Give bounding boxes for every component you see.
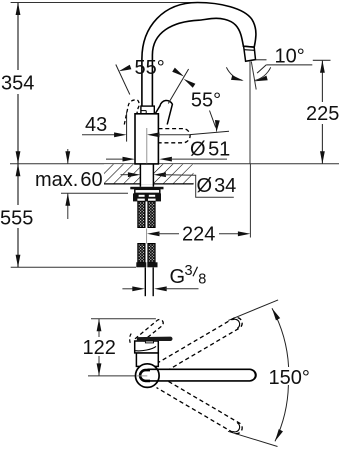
side top reference line — [91, 318, 156, 320]
55deg line A (open lever axis) — [116, 65, 130, 95]
dimension 225 — [321, 60, 323, 163]
lever base block — [141, 106, 154, 114]
centerline in stud gap — [146, 229, 148, 244]
dashed spout position up — [157, 318, 243, 374]
55deg arrow on line A — [118, 65, 131, 74]
dimension diam 51 — [106, 158, 124, 160]
lever axis extension line — [190, 131, 229, 134]
aerator end line down — [232, 423, 239, 432]
svg-text:Ø51: Ø51 — [190, 139, 230, 161]
dimension 224 — [147, 231, 160, 236]
svg-text:55°: 55° — [191, 90, 221, 112]
arrow up at top line — [16, 3, 21, 16]
shank sides through counter — [139, 164, 141, 187]
spout gooseneck outer — [142, 3, 256, 108]
svg-text:8: 8 — [198, 272, 206, 288]
hose end nuts — [136, 262, 146, 267]
svg-text:43: 43 — [85, 114, 107, 136]
top reference line — [11, 2, 197, 4]
counter top reference line — [10, 163, 339, 165]
supply tube G3/8 — [144, 267, 146, 296]
mounting washer — [130, 187, 163, 190]
arrow on line B from right — [182, 77, 195, 88]
svg-text:150°: 150° — [269, 367, 310, 389]
dimension 43 — [82, 134, 117, 136]
threaded studs lower — [138, 244, 155, 263]
raised lever rear dash — [130, 333, 132, 343]
spout inner end cap (thick) — [140, 370, 150, 381]
right solid lever capsule — [154, 100, 173, 124]
10deg swing arc — [226, 67, 242, 80]
svg-text:555: 555 — [0, 207, 33, 229]
225 top reference line — [313, 59, 331, 61]
svg-text:3: 3 — [185, 263, 193, 279]
svg-text:354: 354 — [1, 73, 34, 95]
svg-text:224: 224 — [182, 223, 215, 245]
svg-text:max.60: max.60 — [35, 169, 103, 191]
arrow down at hose line (555 bottom) — [16, 255, 21, 268]
dimension 354/555 vertical line — [17, 3, 19, 268]
svg-text:55°: 55° — [135, 57, 165, 79]
dashed raised lever (side view) — [135, 319, 163, 343]
dimension diam 34 — [121, 174, 130, 176]
dimension G3/8 — [122, 288, 134, 290]
horizontal dashed lever capsule — [159, 129, 191, 143]
max.60 dimension — [67, 149, 69, 164]
side solid spout capsule — [147, 369, 256, 381]
body centerline — [146, 128, 148, 164]
outlet tilted stream line — [251, 62, 256, 90]
55deg line B (closed lever axis) — [168, 69, 188, 104]
hose-end reference line (555 bottom) — [11, 266, 136, 268]
svg-text:Ø34: Ø34 — [197, 175, 237, 197]
dashed spout position down — [157, 378, 243, 434]
arrow on line B from left — [172, 68, 185, 79]
aerator end line up — [232, 319, 239, 328]
notch above body — [144, 339, 149, 341]
arrow up below counter — [16, 164, 21, 177]
faucet body — [135, 114, 158, 164]
svg-text:122: 122 — [83, 337, 116, 359]
svg-text:225: 225 — [306, 103, 339, 125]
outlet line below counter — [249, 164, 251, 238]
shank white cutout through counter — [141, 164, 153, 185]
dimension 122 — [98, 319, 100, 337]
inner swoosh — [135, 346, 156, 350]
leader to horizontal lever — [210, 111, 216, 128]
solid lever blade (side view) — [137, 337, 173, 341]
aerator end line right — [251, 370, 256, 380]
side body lower box — [136, 353, 158, 367]
spout capsule edges inside circle — [148, 369, 159, 381]
svg-text:10°: 10° — [275, 45, 305, 67]
spout outlet aerator — [244, 46, 256, 61]
counter hatch band — [104, 164, 194, 184]
swivel ray lower — [228, 431, 278, 446]
left dashed lever capsule — [124, 100, 139, 125]
outlet vertical reference line — [249, 62, 251, 164]
arrow down at counter (354 bottom) — [16, 151, 21, 164]
mounting block — [135, 189, 160, 193]
swivel ray upper — [228, 300, 278, 321]
43 extension line (lever left extent) — [126, 112, 128, 142]
side bottom reference line — [88, 375, 147, 377]
svg-text:G: G — [170, 266, 186, 288]
threaded studs upper — [138, 201, 155, 227]
swivel arc 150deg — [272, 308, 289, 367]
pivot circle — [136, 364, 160, 388]
mounting nut — [133, 193, 161, 201]
bottom ref line into circle — [136, 375, 147, 377]
side body upper box — [135, 341, 159, 353]
